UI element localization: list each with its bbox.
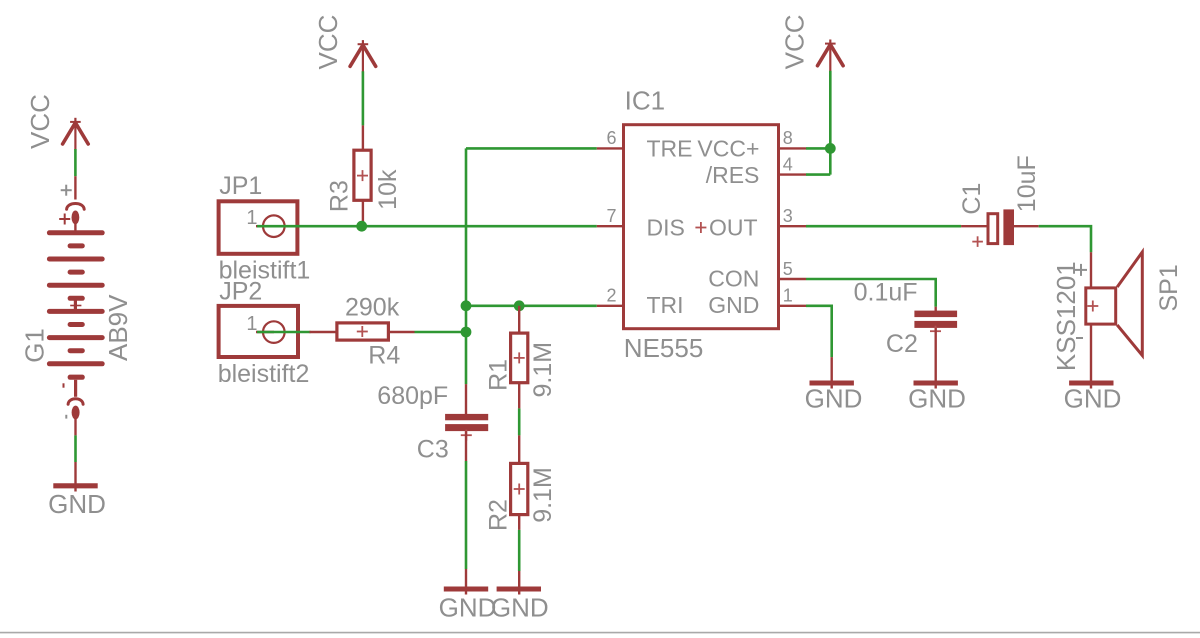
- svg-text:10uF: 10uF: [1013, 155, 1041, 212]
- wire VCC vertical to pin8 node (green): [829, 71, 832, 175]
- battery G1 AB9V: [19, 185, 133, 420]
- svg-text:GND: GND: [48, 489, 106, 519]
- wire battery to GND (green): [74, 435, 77, 462]
- battery plate short 3 with plus: [68, 296, 85, 301]
- svg-text:1: 1: [246, 313, 257, 335]
- svg-text:R1: R1: [484, 359, 512, 391]
- supply VCC (battery) label: [25, 94, 55, 149]
- resistor R3: [326, 150, 403, 212]
- junction node VCC/pin8: [825, 143, 836, 154]
- svg-text:VCC: VCC: [780, 14, 810, 69]
- battery plate long 2: [47, 257, 105, 262]
- wire R1 to R2 (green): [518, 408, 521, 435]
- wire pin8 to node (green): [806, 147, 830, 150]
- svg-text:R4: R4: [368, 341, 400, 369]
- wire R1 top pin (red): [518, 306, 520, 333]
- svg-text:VCC: VCC: [313, 15, 343, 70]
- svg-text:0.1uF: 0.1uF: [854, 278, 918, 306]
- svg-text:9.1M: 9.1M: [529, 467, 557, 523]
- wire R2 to GND (green): [518, 530, 521, 571]
- svg-text:TRI: TRI: [647, 292, 684, 318]
- svg-text:2: 2: [606, 286, 616, 306]
- wire SP1 top pin (red): [1090, 252, 1092, 287]
- svg-text:/RES: /RES: [706, 162, 760, 188]
- pin 5 stub: [780, 278, 806, 280]
- pin line JP1-1: [256, 225, 274, 227]
- wire pin1 GND pin (red): [831, 357, 833, 388]
- wire R3 bottom pin (red): [362, 201, 364, 227]
- connector JP1: [219, 172, 311, 285]
- wire R4 left pin (red): [310, 331, 337, 333]
- svg-text:GND: GND: [491, 592, 549, 622]
- svg-text:NE555: NE555: [624, 333, 704, 363]
- wire pin3 to C1 (green): [806, 225, 961, 228]
- supply VCC (IC) label: [780, 14, 810, 69]
- battery plate long 5: [47, 335, 105, 340]
- wire C3 top pin (red): [465, 384, 467, 414]
- wire pin5 to C2 corner (green): [806, 279, 936, 307]
- svg-text:VCC: VCC: [25, 94, 55, 149]
- bottom frame line: [0, 632, 1200, 634]
- wire C3 GND pin (red): [465, 569, 467, 595]
- pin line JP2-1: [256, 331, 274, 333]
- wire VCC to R3 (green): [362, 71, 365, 125]
- resistor R1: [484, 333, 557, 397]
- resistor R2: [484, 463, 557, 531]
- capacitor C2: [854, 278, 958, 358]
- capacitor C1 (polarized): [958, 155, 1041, 247]
- wire C1 right pin (red): [1014, 225, 1039, 227]
- ground GND (R2): [491, 589, 549, 622]
- wire R2 bottom pin (red): [518, 515, 520, 530]
- svg-text:TRE: TRE: [647, 136, 693, 162]
- svg-text:bleistift2: bleistift2: [218, 360, 310, 388]
- wire R1 bottom pin (red): [518, 383, 520, 409]
- ground GND (C2): [908, 383, 966, 414]
- ground GND (battery): [48, 486, 106, 519]
- svg-text:9.1M: 9.1M: [529, 342, 557, 398]
- svg-text:1: 1: [246, 207, 257, 229]
- junction node TRI at x466: [461, 300, 472, 311]
- battery gray minus mark: [65, 415, 67, 419]
- svg-text:5: 5: [783, 259, 793, 279]
- pin 6 stub: [597, 147, 622, 149]
- battery plate long 4: [47, 309, 105, 314]
- battery plate short 2: [68, 270, 85, 275]
- wire C3 to GND (green): [465, 461, 468, 569]
- wire SP1 bottom pin (red): [1090, 325, 1092, 389]
- wire VCC to battery + (green): [74, 149, 77, 176]
- wire battery + pin (red): [74, 176, 76, 199]
- pin 3 stub: [780, 225, 806, 227]
- svg-text:R2: R2: [484, 499, 512, 531]
- wire battery - pin (red): [74, 418, 76, 435]
- svg-text:680pF: 680pF: [377, 382, 448, 410]
- pin circle JP2-1: [263, 321, 285, 343]
- svg-text:C1: C1: [958, 183, 986, 215]
- battery plate long 3: [47, 283, 105, 288]
- part origin cross SP1: [1087, 301, 1098, 312]
- svg-text:GND: GND: [439, 592, 497, 622]
- wire JP2 to R4 (green): [257, 331, 311, 334]
- pin 1 stub: [780, 305, 806, 307]
- wire R2 top pin (red): [518, 435, 520, 462]
- junction node at TRI column / R4: [461, 327, 472, 338]
- connector JP2: [218, 278, 310, 388]
- wire pin4 to node (green): [806, 173, 830, 176]
- svg-text:IC1: IC1: [625, 86, 665, 116]
- pin 7 stub: [597, 225, 622, 227]
- svg-text:JP2: JP2: [219, 278, 262, 306]
- battery - terminal bar: [68, 375, 85, 380]
- wire TRE row to IC pin 6 (green): [466, 147, 597, 150]
- wire C3 bottom pin (red): [465, 431, 467, 461]
- speaker cone: [1117, 252, 1142, 355]
- battery - clip arc: [68, 399, 83, 404]
- svg-text:GND: GND: [1064, 384, 1122, 414]
- wire pin1 to GND corner (green): [806, 306, 832, 357]
- battery plate short 4: [68, 322, 85, 327]
- supply VCC (R3) symbol: [350, 40, 376, 72]
- svg-text:4: 4: [783, 155, 793, 175]
- svg-text:G1: G1: [19, 328, 49, 363]
- wire JP1 to DIS row (green): [257, 225, 597, 228]
- wire R4 to node (green): [415, 331, 467, 334]
- wire R3 top pin (red): [362, 125, 364, 149]
- speaker SP1 KSS1201: [1051, 252, 1183, 371]
- battery red minus mark: [63, 383, 65, 387]
- svg-text:3: 3: [783, 206, 793, 226]
- wire R4 right pin (red): [389, 331, 415, 333]
- supply VCC (battery) symbol: [63, 118, 89, 150]
- wire C2 top pin (red): [935, 307, 937, 312]
- ground GND (pin1): [805, 383, 863, 414]
- pin circle JP1-1: [263, 215, 285, 237]
- svg-text:CON: CON: [708, 266, 759, 292]
- part origin cross IC1: [695, 222, 706, 233]
- wire TRE vertical net (green): [465, 148, 468, 384]
- svg-text:JP1: JP1: [219, 172, 262, 200]
- wire C1 to SP1 corner (green): [1039, 226, 1091, 252]
- svg-text:7: 7: [606, 206, 616, 226]
- svg-text:GND: GND: [805, 384, 863, 414]
- wire C1 left pin (red): [961, 225, 987, 227]
- capacitor C3: [377, 382, 488, 464]
- pin 2 stub: [597, 305, 622, 307]
- wire R2 GND pin (red): [518, 571, 520, 595]
- pin 8 stub: [780, 147, 806, 149]
- battery red plus mark: [59, 214, 70, 225]
- battery plate long 1: [47, 230, 105, 235]
- pin 4 stub: [780, 173, 806, 175]
- svg-text:GND: GND: [908, 384, 966, 414]
- svg-text:C3: C3: [417, 436, 449, 464]
- svg-text:GND: GND: [708, 292, 759, 318]
- op-amp timer IC1 NE555: [597, 86, 806, 363]
- speaker gray plus mark: [1075, 264, 1087, 276]
- battery gray plus mark: [61, 185, 72, 196]
- battery plate short 5: [68, 348, 85, 353]
- svg-text:DIS: DIS: [647, 214, 685, 240]
- supply VCC (R3) label: [313, 15, 343, 70]
- svg-text:SP1: SP1: [1155, 264, 1183, 311]
- junction node at R3/DIS: [356, 221, 367, 232]
- svg-text:290k: 290k: [345, 293, 400, 321]
- wire TRI row to IC pin 2 (green): [466, 304, 597, 307]
- svg-text:1: 1: [783, 286, 793, 306]
- resistor R4: [337, 293, 400, 369]
- supply VCC (IC) symbol: [818, 40, 844, 72]
- ground GND (C3): [439, 589, 497, 622]
- svg-text:VCC+: VCC+: [697, 136, 759, 162]
- svg-text:R3: R3: [326, 180, 354, 212]
- ground GND (SP1): [1064, 383, 1122, 414]
- svg-text:6: 6: [606, 128, 616, 148]
- svg-text:C2: C2: [886, 330, 918, 358]
- svg-text:8: 8: [783, 128, 793, 148]
- battery - terminal pad: [72, 406, 80, 420]
- junction node TRI at R1: [514, 300, 525, 311]
- battery + terminal pad: [72, 211, 80, 225]
- speaker gray minus mark: [1076, 337, 1083, 339]
- battery plate short 1: [68, 243, 85, 248]
- svg-text:OUT: OUT: [709, 214, 758, 240]
- wire C2 bottom pin (red): [935, 328, 937, 389]
- battery + clip arc: [67, 204, 85, 210]
- svg-text:10k: 10k: [374, 169, 402, 210]
- wire GND pin (red): [74, 462, 76, 492]
- svg-text:KSS1201: KSS1201: [1051, 261, 1081, 371]
- svg-text:AB9V: AB9V: [103, 294, 133, 361]
- battery plate long 6: [47, 361, 105, 366]
